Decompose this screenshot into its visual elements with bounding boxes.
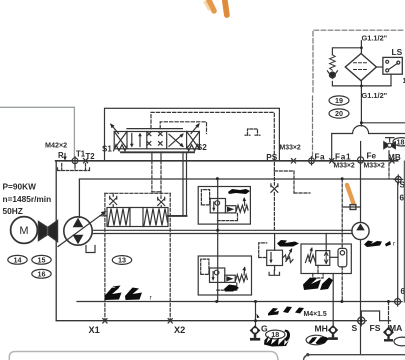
bypass spring	[330, 55, 336, 70]
pump triangle up	[73, 218, 84, 227]
port R arrow	[64, 154, 66, 158]
balloon 13	[112, 256, 131, 265]
enclosure left edge	[55, 161, 57, 321]
svg-text:Fe: Fe	[367, 152, 377, 161]
tank rounded box bottom left	[9, 352, 278, 360]
directional valve body S1 S2	[114, 132, 199, 149]
port X2 tick	[168, 319, 172, 323]
svg-text:18: 18	[397, 138, 405, 147]
scribble at G port	[264, 336, 289, 347]
inner manifold bottom line	[77, 301, 398, 303]
orange mark top 1	[209, 1, 214, 11]
svg-text:14: 14	[14, 256, 22, 265]
svg-text:19: 19	[335, 96, 343, 105]
svg-text:16: 16	[38, 270, 46, 279]
filter dash-dot box	[313, 30, 405, 92]
wire Fe riser	[360, 157, 362, 223]
valve underline plate	[121, 151, 194, 153]
coupling	[39, 222, 48, 241]
proportional arrow S1	[111, 125, 119, 134]
dashed X2 riser	[169, 193, 171, 320]
box2 reducing valve	[267, 250, 283, 265]
balloon 18 at shutoff	[393, 138, 405, 146]
right edge vertical	[403, 161, 405, 302]
circulation pump	[352, 222, 369, 239]
bypass check ball	[329, 72, 335, 78]
svg-text:M33×2: M33×2	[364, 163, 385, 170]
scribble right of circulation pump	[364, 241, 382, 248]
svg-text:MB: MB	[388, 153, 401, 162]
wire right edge riser	[397, 182, 399, 298]
wire gray drop to Fa	[312, 96, 314, 158]
svg-text:M42×2: M42×2	[45, 141, 67, 150]
wire G drop	[255, 302, 257, 327]
svg-text:6: 6	[401, 287, 405, 296]
solenoid S2 box diagonals	[187, 132, 200, 149]
wire hop line	[332, 126, 405, 134]
balloon 19	[329, 96, 349, 105]
port Fa1 tick	[330, 159, 334, 163]
wire MA dashed drop	[388, 302, 390, 321]
svg-text:T1: T1	[76, 150, 86, 159]
balloon 16	[32, 269, 51, 278]
svg-text:T2: T2	[86, 152, 96, 161]
filter inlet	[360, 41, 362, 54]
balloon 15	[32, 255, 51, 264]
svg-text:M33×2: M33×2	[334, 163, 355, 170]
spring right cell	[144, 209, 168, 226]
port top-right circle	[395, 176, 401, 182]
scribble above box2	[277, 240, 299, 247]
svg-text:18: 18	[271, 330, 279, 339]
enclosure bottom line	[56, 320, 361, 322]
svg-text:FS: FS	[370, 323, 381, 333]
spring S2	[187, 145, 199, 151]
wire tank return gray L-line	[0, 107, 74, 157]
valve position b crossed arrows	[169, 134, 183, 146]
valve position a arrows	[131, 134, 133, 145]
orifice left	[110, 196, 117, 204]
port Fa circle	[309, 158, 315, 164]
solenoid S1 box diagonals	[114, 132, 127, 149]
main double line upper	[93, 229, 353, 231]
svg-text:G: G	[261, 323, 268, 333]
wire Fa1 drop	[331, 134, 333, 161]
main port line (R T1 T2 PS Fa Fa1 Fe MB)	[56, 160, 398, 162]
motor M	[11, 217, 38, 244]
svg-text:S: S	[400, 181, 405, 190]
orange mark diagonal right	[347, 185, 354, 204]
svg-text:M: M	[19, 225, 28, 237]
dashed pilot line above valve	[151, 112, 274, 160]
wire PS pilot dashes	[273, 163, 275, 186]
box1 pilot relief upper	[198, 187, 250, 225]
dashed pilot line to S2	[160, 122, 206, 134]
orifice right	[158, 197, 165, 205]
pump triangle down	[73, 235, 84, 244]
scribble box1 top	[228, 189, 250, 194]
box2 tank T	[269, 270, 279, 275]
wire dashed MA drop from capsule	[341, 267, 343, 302]
stroking cylinder box	[107, 208, 168, 227]
tank bracket dashed under R T1 T2	[58, 164, 90, 171]
balloon MA ellipse cut	[394, 337, 405, 346]
svg-text:X1: X1	[89, 325, 100, 335]
port X1 tick	[103, 319, 107, 323]
tick near G riser	[257, 314, 260, 319]
svg-text:R: R	[58, 151, 64, 160]
bypass loop	[332, 48, 391, 86]
svg-text:S: S	[352, 323, 358, 333]
svg-text:MH: MH	[315, 323, 328, 333]
box3 sequence valve	[301, 244, 351, 274]
scribble below box3	[303, 278, 321, 291]
main double line lower	[93, 233, 353, 235]
scribble box0 bottom	[224, 285, 239, 292]
wire filter outlet	[360, 86, 362, 123]
spring left cell	[108, 209, 129, 226]
svg-text:S2: S2	[197, 143, 207, 152]
port MA anchor	[383, 327, 394, 338]
port G anchor	[250, 325, 261, 336]
svg-text:50HZ: 50HZ	[3, 206, 23, 216]
svg-text:X2: X2	[174, 325, 185, 335]
filter diamond	[345, 54, 376, 81]
svg-text:PS: PS	[266, 153, 277, 162]
box0 pilot relief lower	[198, 256, 251, 295]
svg-text:G1.1/2": G1.1/2"	[362, 33, 388, 42]
svg-text:M33×2: M33×2	[280, 145, 301, 152]
wire orifice plate link	[342, 206, 360, 208]
wire valve A/B drop lines	[182, 152, 184, 216]
port S circle	[358, 317, 365, 324]
orange highlighted square	[350, 205, 356, 210]
shutoff valve MB	[386, 138, 394, 142]
scribble pair on left box bottom	[105, 189, 392, 347]
svg-text:Fa1: Fa1	[335, 152, 351, 161]
svg-text:20: 20	[335, 109, 343, 118]
balloon 18 at G	[266, 330, 285, 339]
svg-text:n=1485r/min: n=1485r/min	[3, 194, 52, 204]
line2 pump pressure run	[79, 179, 397, 218]
svg-text:MA: MA	[389, 323, 402, 333]
pump case drain bracket	[86, 246, 95, 253]
wire main riser through boxes	[217, 179, 219, 302]
svg-text:M4×1.5: M4×1.5	[304, 311, 327, 318]
wire MH drop	[332, 274, 334, 326]
wire box2 riser	[274, 234, 276, 251]
pump stroke arrow	[58, 213, 104, 247]
port MH anchor	[328, 325, 338, 335]
valve top channel line	[127, 128, 182, 130]
svg-text:Fa: Fa	[315, 152, 326, 161]
svg-text:6: 6	[400, 194, 405, 203]
spring box2 with arrow	[283, 255, 294, 263]
tank corner right	[304, 355, 405, 360]
port T1 circle	[72, 158, 78, 164]
wire MB dashed drop	[388, 151, 390, 179]
dashed control box around stroking cylinder	[105, 192, 170, 194]
svg-text:P=90KW: P=90KW	[3, 182, 37, 192]
balloon 14	[8, 255, 27, 264]
balloon MH ellipse	[306, 335, 326, 345]
valve sub-box (S1/S2 manifold)	[105, 108, 280, 161]
svg-text:13: 13	[118, 256, 126, 265]
balloon 20	[329, 109, 349, 118]
valve centre blocked crosses	[147, 132, 162, 145]
scribble at MH	[309, 337, 318, 344]
svg-text:15: 15	[38, 256, 46, 265]
dashed LS blind bracket	[245, 129, 260, 135]
spring S1	[114, 145, 128, 151]
orange mark top 2	[225, 1, 227, 15]
FS notch	[361, 311, 379, 321]
pump main circle	[64, 217, 92, 245]
wire valve P drop stubs	[152, 153, 161, 161]
orifice PS	[271, 184, 278, 192]
svg-text:S1: S1	[102, 144, 112, 153]
dashed X1 riser	[104, 193, 106, 320]
port MB bottom circle	[395, 299, 401, 305]
port PS tick	[291, 159, 295, 163]
pressure switch LS	[383, 57, 402, 74]
dashed control drops	[151, 161, 153, 192]
proportional arrow S2	[191, 124, 199, 133]
port MB tick	[390, 159, 394, 163]
port T2 tick	[84, 159, 88, 163]
scribbles on bottom rail	[268, 308, 279, 316]
svg-text:G1.1/2": G1.1/2"	[362, 91, 388, 100]
svg-text:LS: LS	[392, 47, 403, 57]
port Fe circle	[358, 157, 364, 163]
